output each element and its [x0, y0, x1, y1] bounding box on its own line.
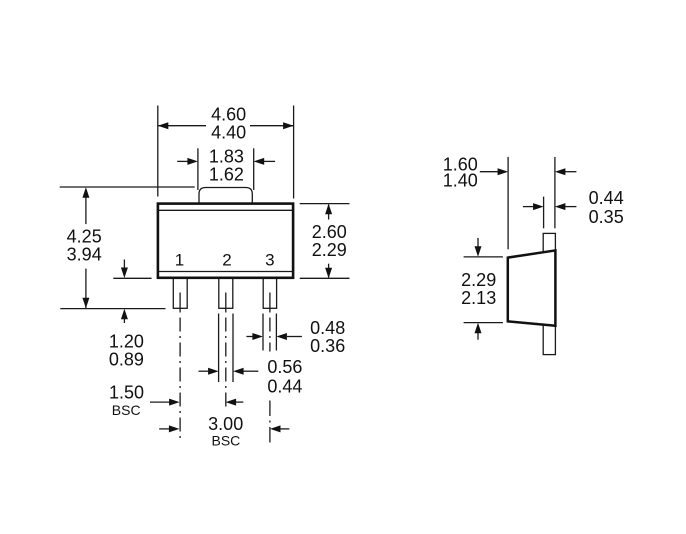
side view: lead [543, 233, 555, 354]
svg-text:2.60: 2.60 [312, 222, 347, 242]
lead 3 width extension lines [263, 314, 276, 351]
svg-text:4.25: 4.25 [67, 227, 102, 247]
front view: body inner bottom line [159, 271, 292, 273]
side view dimension 0.44/0.35 extension line [543, 197, 545, 229]
svg-text:2.29: 2.29 [461, 270, 496, 290]
dimension 1.50 BSC arrows [150, 401, 243, 403]
svg-text:BSC: BSC [112, 402, 141, 418]
svg-text:0.44: 0.44 [267, 376, 302, 396]
dimension 1.20/0.89 arrows [123, 260, 125, 324]
dimension 2.60/2.29 extension lines [300, 204, 350, 279]
side view dimension 1.60/1.40 extension lines [508, 157, 555, 249]
svg-text:0.56: 0.56 [267, 357, 302, 377]
lead 2 width extension lines [219, 314, 233, 383]
dimension 4.25/3.94 extension lines [60, 187, 195, 309]
dimension 0.56/0.44 arrows [199, 370, 259, 372]
svg-text:1.40: 1.40 [443, 171, 478, 191]
lead 3 centerline [269, 293, 271, 444]
dimension 4.60/4.40 dimension line and arrows [159, 125, 294, 127]
front view: body inner top line [159, 209, 292, 211]
svg-text:2.13: 2.13 [461, 288, 496, 308]
svg-text:4.40: 4.40 [211, 123, 246, 143]
svg-text:3.94: 3.94 [67, 245, 102, 265]
svg-text:3: 3 [265, 251, 274, 270]
svg-text:1.62: 1.62 [209, 164, 244, 184]
svg-text:0.89: 0.89 [109, 350, 144, 370]
side view dimension 2.29/2.13 extension lines [464, 257, 503, 323]
dimension 0.48/0.36 arrows [246, 336, 302, 338]
front view: lead 3 [263, 277, 276, 308]
svg-text:0.36: 0.36 [310, 336, 345, 356]
svg-text:BSC: BSC [212, 433, 241, 449]
side view dimension 1.60/1.40 arrows [480, 171, 577, 173]
dimension 4.60/4.40 extension lines [158, 106, 294, 199]
dimension 1.20/0.89 extension line [113, 277, 151, 279]
lead 1 centerline [179, 293, 181, 441]
dimension 2.60/2.29 arrows [328, 205, 330, 278]
svg-text:1.50: 1.50 [109, 382, 144, 402]
svg-text:0.48: 0.48 [310, 318, 345, 338]
svg-text:1.20: 1.20 [109, 332, 144, 352]
svg-text:4.60: 4.60 [211, 105, 246, 125]
front view: package tab [199, 188, 252, 204]
svg-text:2: 2 [222, 251, 231, 270]
svg-text:0.44: 0.44 [589, 188, 624, 208]
dimension 1.83/1.62 extension lines [198, 148, 254, 190]
dimension 4.25/3.94 dimension line and arrows [85, 196, 87, 308]
front view: lead 2 [219, 277, 233, 308]
side view dimension 0.44/0.35 arrows [523, 206, 577, 208]
front view: package body [158, 204, 293, 278]
front view: lead 1 [173, 277, 187, 308]
dimension 1.83/1.62 arrows [177, 160, 275, 162]
svg-text:1: 1 [175, 251, 184, 270]
dimension 3.00 BSC arrows [159, 428, 289, 430]
side view dimension 2.29/2.13 arrows [477, 238, 479, 340]
svg-text:0.35: 0.35 [589, 207, 624, 227]
lead 2 centerline [225, 293, 227, 412]
side view: package body [508, 250, 556, 325]
svg-text:2.29: 2.29 [312, 240, 347, 260]
svg-text:3.00: 3.00 [208, 414, 243, 434]
